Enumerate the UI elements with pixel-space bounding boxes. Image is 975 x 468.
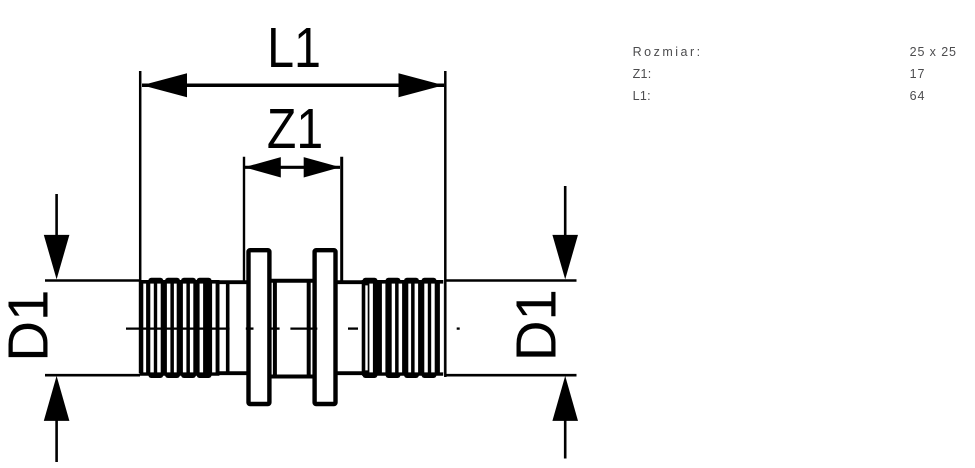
- svg-text:D1: D1: [504, 289, 567, 361]
- svg-text:Rozmiar:: Rozmiar:: [633, 45, 703, 59]
- svg-text:17: 17: [910, 67, 926, 81]
- svg-text:Z1:: Z1:: [633, 67, 652, 81]
- svg-text:L1:: L1:: [633, 89, 651, 103]
- svg-text:25 x 25: 25 x 25: [910, 45, 957, 59]
- svg-text:64: 64: [910, 89, 926, 103]
- svg-text:L1: L1: [267, 16, 321, 80]
- svg-text:D1: D1: [0, 290, 59, 362]
- svg-text:Z1: Z1: [267, 97, 323, 161]
